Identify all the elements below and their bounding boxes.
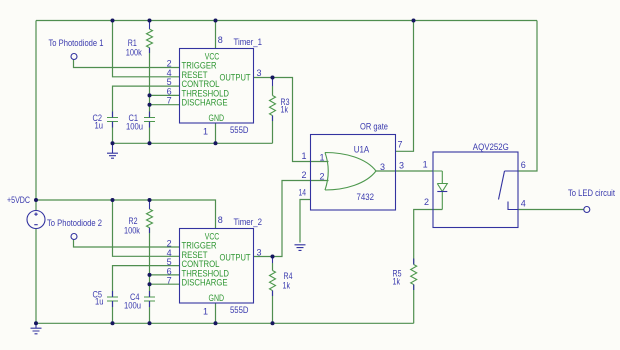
svg-text:7: 7 (398, 140, 403, 150)
svg-text:2: 2 (424, 197, 429, 207)
wire Timer_1 discharge (150, 104, 180, 106)
capacitor C5 1u (93, 290, 119, 307)
svg-text:14: 14 (299, 188, 307, 198)
wire Timer_2 GND pin 1 (215, 303, 217, 323)
svg-text:1k: 1k (393, 277, 401, 287)
svg-text:8: 8 (218, 35, 223, 45)
svg-text:DISCHARGE: DISCHARGE (182, 98, 228, 108)
wire right border to optocoupler pin6 (518, 21, 537, 172)
svg-text:R2: R2 (129, 216, 138, 226)
svg-text:100k: 100k (124, 226, 140, 236)
ground OR gate pin 14 (295, 245, 306, 251)
wire Timer_2 control to C5 (113, 266, 180, 297)
svg-text:R4: R4 (284, 271, 293, 281)
node To Photodiode 2 (47, 218, 102, 240)
svg-text:To Photodiode 2: To Photodiode 2 (47, 218, 102, 228)
wire OR gate pin 14 to ground (300, 200, 311, 243)
svg-text:AQV252G: AQV252G (473, 142, 509, 152)
wire Timer_2 threshold (150, 274, 180, 276)
wire OR gate pin 7 to +5V (396, 21, 414, 152)
resistor R5 1k (393, 265, 417, 287)
wire bottom ground rail (36, 322, 414, 324)
capacitor C2 1u (93, 113, 119, 131)
timer U 555D Timer_1 (180, 37, 263, 135)
svg-text:OR gate: OR gate (360, 121, 388, 131)
wire OR gate pin 2 stub (311, 180, 329, 182)
svg-text:To LED circuit: To LED circuit (568, 188, 615, 198)
capacitor C1 100u (126, 113, 155, 132)
switch inside optocoupler (499, 171, 519, 210)
svg-text:555D: 555D (230, 305, 249, 315)
svg-text:OUTPUT: OUTPUT (220, 73, 251, 83)
svg-text:2: 2 (301, 170, 306, 180)
source V1 +5VDC (7, 195, 45, 229)
svg-text:1u: 1u (95, 121, 104, 131)
svg-text:Timer_1: Timer_1 (234, 37, 263, 47)
wire Timer_2 trigger from photodiode 2 (74, 239, 180, 247)
svg-text:1: 1 (203, 127, 208, 137)
svg-text:+5VDC: +5VDC (7, 195, 30, 205)
wire optocoupler pin 2 to R5 (414, 210, 443, 265)
wire left rail upper (35, 21, 37, 211)
wire R2 lead to C4 (149, 228, 151, 297)
wire OR gate output pin 3 to optocoupler pin 1 (376, 170, 433, 172)
node junction dots (34, 19, 416, 326)
wire C5 to ground rail (112, 301, 114, 323)
svg-text:100u: 100u (126, 122, 143, 132)
wire component lead stubs (112, 112, 114, 128)
wire Timer_1 trigger from photodiode 1 (74, 59, 180, 67)
LED inside optocoupler (433, 171, 447, 210)
optocoupler U2 AQV252G (433, 142, 518, 228)
wire top +5V rail (36, 20, 537, 22)
wire R4 lower lead (272, 291, 274, 324)
svg-text:1k: 1k (283, 281, 291, 291)
wire C4 to ground rail (149, 301, 151, 323)
svg-text:U1A: U1A (354, 144, 370, 154)
wire Timer_1 reset to +5V (113, 21, 180, 77)
svg-text:3: 3 (399, 161, 404, 171)
svg-text:3: 3 (380, 162, 385, 172)
svg-text:100u: 100u (124, 301, 141, 311)
node To Photodiode 1 (49, 38, 104, 60)
wire Timer_1 control to C2 (113, 86, 180, 117)
capacitor C4 100u (124, 292, 155, 311)
svg-text:1: 1 (320, 153, 325, 163)
svg-text:Timer_2: Timer_2 (234, 217, 263, 227)
svg-text:3: 3 (257, 248, 262, 258)
wire C2 to ground rail (112, 122, 114, 144)
svg-text:GND: GND (209, 113, 225, 123)
svg-text:DISCHARGE: DISCHARGE (182, 278, 228, 288)
svg-text:1: 1 (301, 151, 306, 161)
svg-text:6: 6 (521, 160, 526, 170)
wire R3 lower lead (272, 116, 274, 144)
wire +5V branch to Timer_2 VCC (36, 200, 216, 229)
resistor R2 100k (124, 200, 153, 236)
svg-text:1u: 1u (95, 297, 104, 307)
ground main (31, 323, 42, 334)
wire Timer_1 output to OR gate pin 1 (254, 78, 311, 162)
svg-text:7432: 7432 (357, 192, 375, 202)
wire Timer_1 GND pin 1 (215, 123, 217, 143)
wire Timer_2 output to OR gate pin 2 (254, 181, 311, 257)
ground Timer_1 section (107, 143, 118, 158)
wire Timer_1 ground rail (113, 142, 273, 144)
wire Timer_1 VCC pin 8 (215, 21, 217, 49)
svg-text:3: 3 (257, 68, 262, 78)
svg-text:GND: GND (209, 293, 225, 303)
wire R1 lead to C1 (149, 48, 151, 118)
svg-text:1: 1 (423, 160, 428, 170)
wire left rail lower (35, 229, 37, 324)
svg-text:7: 7 (167, 96, 172, 106)
svg-text:555D: 555D (230, 125, 249, 135)
resistor R3 1k (270, 78, 290, 116)
wire Timer_2 discharge (150, 283, 180, 285)
svg-text:To Photodiode 1: To Photodiode 1 (49, 38, 104, 48)
svg-text:7: 7 (167, 276, 172, 286)
timer U 555D Timer_2 (180, 217, 263, 315)
wire OR gate pin 1 stub (311, 161, 329, 163)
svg-text:100k: 100k (126, 48, 142, 58)
svg-text:8: 8 (218, 215, 223, 225)
wire Timer_2 reset to +5V (113, 200, 180, 256)
op-amp U1A 7432 OR gate (311, 121, 396, 210)
resistor R1 100k (126, 21, 153, 58)
svg-text:2: 2 (320, 172, 325, 182)
svg-text:1k: 1k (281, 105, 289, 115)
svg-text:OUTPUT: OUTPUT (220, 253, 251, 263)
svg-text:4: 4 (521, 199, 526, 209)
wire R5 lower lead (413, 285, 415, 324)
svg-text:R1: R1 (128, 38, 137, 48)
wire Timer_1 threshold (150, 94, 180, 96)
wire C1 to ground rail (149, 122, 151, 144)
svg-text:1: 1 (203, 307, 208, 317)
resistor R4 1k (270, 257, 293, 291)
wire optocoupler pin 4 to LED circuit terminal (518, 209, 584, 211)
node To LED circuit (568, 188, 615, 213)
